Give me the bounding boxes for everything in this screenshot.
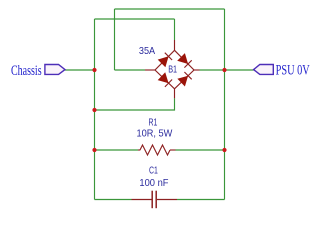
resistor R1 lead right (red)	[170, 149, 176, 151]
wire: capacitor row left	[95, 199, 132, 201]
diode D-bottomleft (arrow toward bottom vertex)	[158, 72, 172, 87]
diode D-bottomright (arrow toward right vertex)	[177, 72, 191, 87]
wire: Chassis flag lead	[65, 69, 95, 71]
svg-text:PSU 0V: PSU 0V	[276, 63, 310, 79]
resistor R1	[137, 117, 176, 155]
wire: right vertical bus (PSU 0V node)	[224, 9, 226, 200]
junction: PSU node at resistor row	[222, 148, 226, 152]
bridge B1 diamond outline	[155, 50, 194, 89]
junction: PSU node at bridge row	[222, 68, 226, 72]
wire: bridge right to PSU flag	[200, 69, 254, 71]
svg-text:Chassis: Chassis	[11, 63, 42, 79]
svg-text:B1: B1	[168, 65, 177, 76]
wire: bridge top lead green	[174, 19, 176, 40]
net flag Chassis	[11, 63, 65, 79]
capacitor C1 plate left	[151, 191, 153, 209]
capacitor C1 lead left (red)	[132, 199, 152, 201]
bridge rectifier B1	[139, 40, 200, 98]
capacitor C1 lead right (red)	[157, 199, 177, 201]
svg-text:R1: R1	[149, 117, 158, 128]
resistor R1 lead left (red)	[138, 149, 140, 151]
diode D-topright (arrow toward right vertex)	[177, 53, 192, 68]
junction: Chassis node at bridge bottom row	[92, 108, 96, 112]
wire: left vertical bus (Chassis node)	[94, 19, 96, 200]
resistor R1 zigzag	[140, 145, 170, 155]
junction: Chassis node at bridge row	[92, 68, 96, 72]
diode D-topleft (arrow toward top vertex)	[158, 53, 172, 67]
wire: outer left vertical	[114, 9, 116, 70]
net flag PSU 0V	[254, 63, 310, 79]
bridge B1 pin top (red)	[174, 40, 176, 50]
bridge B1 pin right (red)	[194, 69, 200, 71]
capacitor C1	[132, 166, 178, 209]
wire: resistor row right	[176, 149, 225, 151]
capacitor C1 plate right	[155, 191, 157, 209]
wire: inner top horizontal from Chassis node to bridge top lead	[95, 18, 175, 20]
svg-text:35A: 35A	[139, 46, 155, 57]
svg-text:C1: C1	[149, 166, 158, 177]
svg-text:100 nF: 100 nF	[139, 178, 168, 189]
bridge B1 pin left (red)	[145, 69, 155, 71]
wire: bridge bottom lead green	[95, 98, 175, 110]
wire: outer top horizontal	[115, 8, 225, 10]
wire: outer left horizontal to bridge left pin	[115, 69, 146, 71]
svg-text:10R, 5W: 10R, 5W	[137, 128, 173, 139]
wire: capacitor row right	[177, 199, 225, 201]
wire: resistor row left	[95, 149, 139, 151]
junction: Chassis node at resistor row	[92, 148, 96, 152]
bridge B1 pin bottom (red)	[174, 89, 176, 99]
